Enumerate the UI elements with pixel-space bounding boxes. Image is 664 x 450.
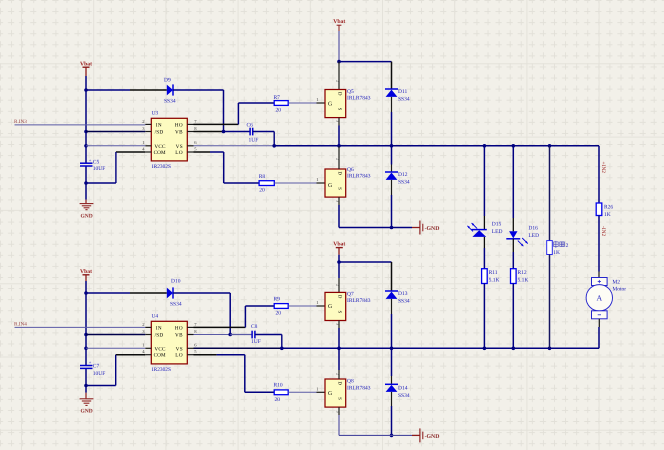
svg-text:3: 3 <box>336 200 341 202</box>
svg-text:SS34: SS34 <box>398 180 410 186</box>
svg-text:GND: GND <box>81 214 93 220</box>
svg-text:Q5: Q5 <box>347 89 354 95</box>
svg-text:20: 20 <box>275 397 281 403</box>
svg-text:SS34: SS34 <box>398 97 410 103</box>
svg-text:1K: 1K <box>553 250 560 256</box>
svg-text:Vbat: Vbat <box>333 242 345 248</box>
svg-text:IRLR7843: IRLR7843 <box>347 173 371 179</box>
svg-text:LED: LED <box>492 229 503 235</box>
svg-text:D16: D16 <box>528 226 538 232</box>
svg-text:Q8: Q8 <box>347 378 354 384</box>
svg-text:20: 20 <box>259 188 265 194</box>
svg-text:A: A <box>596 294 602 303</box>
svg-text:3: 3 <box>336 323 341 325</box>
svg-text:SS34: SS34 <box>398 393 410 399</box>
svg-text:S: S <box>337 108 343 111</box>
svg-text:1K: 1K <box>604 212 611 218</box>
svg-text:D11: D11 <box>398 89 408 95</box>
svg-text:Motor: Motor <box>612 286 626 292</box>
svg-text:2: 2 <box>336 158 341 160</box>
svg-text:COM: COM <box>154 150 166 156</box>
svg-text:LO: LO <box>175 353 183 359</box>
svg-text:IR2302S: IR2302S <box>152 164 171 170</box>
svg-text:HO: HO <box>175 325 183 331</box>
svg-text:R26: R26 <box>604 205 613 211</box>
svg-text:S: S <box>337 311 343 314</box>
svg-text:5.1K: 5.1K <box>489 278 500 284</box>
svg-text:10UF: 10UF <box>93 371 106 377</box>
svg-text:/SD: /SD <box>155 130 164 136</box>
svg-text:D12: D12 <box>398 172 408 178</box>
svg-text:D14: D14 <box>398 386 408 392</box>
svg-text:GND: GND <box>81 409 93 415</box>
svg-text:Q7: Q7 <box>347 292 354 298</box>
svg-text:10UF: 10UF <box>93 166 106 172</box>
svg-text:+: + <box>89 360 92 365</box>
svg-text:R10: R10 <box>274 383 283 389</box>
svg-text:G: G <box>328 304 332 310</box>
svg-text:3: 3 <box>336 120 341 122</box>
svg-text:/SD: /SD <box>155 333 164 339</box>
svg-text:D13: D13 <box>398 291 408 297</box>
svg-text:R11: R11 <box>489 270 498 276</box>
svg-text:S: S <box>337 187 343 190</box>
svg-text:1UF: 1UF <box>251 339 261 345</box>
svg-text:3: 3 <box>336 411 341 413</box>
svg-text:-IN2: -IN2 <box>600 226 606 236</box>
svg-text:LO: LO <box>175 150 183 156</box>
svg-text:D: D <box>337 382 343 386</box>
svg-text:Vbat: Vbat <box>80 269 92 275</box>
svg-text:VB: VB <box>175 130 183 136</box>
svg-text:-GND: -GND <box>425 226 440 232</box>
svg-text:IRLR7843: IRLR7843 <box>347 386 371 392</box>
svg-text:-GND: -GND <box>425 434 440 440</box>
svg-text:LED: LED <box>528 233 539 239</box>
svg-text:IN: IN <box>156 325 162 331</box>
svg-text:1UF: 1UF <box>249 138 259 144</box>
svg-text:D15: D15 <box>492 222 502 228</box>
svg-text:5.1K: 5.1K <box>518 278 529 284</box>
svg-text:VS: VS <box>176 144 183 150</box>
svg-text:SS34: SS34 <box>398 299 410 305</box>
svg-text:IN: IN <box>156 122 162 128</box>
svg-text:M2: M2 <box>612 279 620 285</box>
svg-text:VCC: VCC <box>154 144 166 150</box>
svg-text:C7: C7 <box>93 364 100 370</box>
svg-text:COM: COM <box>154 353 166 359</box>
svg-text:G: G <box>328 183 332 189</box>
svg-text:20: 20 <box>276 107 282 113</box>
svg-text:2: 2 <box>336 373 341 375</box>
svg-text:S: S <box>337 397 343 400</box>
svg-text:+IN2: +IN2 <box>600 162 606 174</box>
svg-text:SS34: SS34 <box>164 99 176 105</box>
svg-text:Vbat: Vbat <box>333 19 345 25</box>
svg-text:+: + <box>89 158 92 163</box>
svg-text:Q6: Q6 <box>347 167 354 173</box>
svg-text:SS34: SS34 <box>170 302 182 308</box>
svg-text:VS: VS <box>176 346 183 352</box>
svg-text:R12: R12 <box>518 270 527 276</box>
svg-text:D9: D9 <box>164 78 171 84</box>
svg-text:C8: C8 <box>251 324 258 330</box>
svg-text:IRLR7843: IRLR7843 <box>347 95 371 101</box>
svg-text:IR2302S: IR2302S <box>152 367 171 373</box>
svg-text:2: 2 <box>336 80 341 82</box>
svg-text:D10: D10 <box>171 279 181 285</box>
svg-text:R.IN3: R.IN3 <box>14 119 27 125</box>
svg-text:C5: C5 <box>93 160 100 166</box>
svg-text:R7: R7 <box>274 95 281 101</box>
svg-text:20: 20 <box>276 310 282 316</box>
svg-text:D: D <box>337 295 343 299</box>
svg-text:VB: VB <box>175 333 183 339</box>
svg-text:R8: R8 <box>259 174 266 180</box>
svg-text:IRLR7843: IRLR7843 <box>347 298 371 304</box>
svg-text:G: G <box>328 101 332 107</box>
svg-text:R9: R9 <box>274 297 281 303</box>
svg-text:VCC: VCC <box>154 346 166 352</box>
svg-text:R.IN4: R.IN4 <box>14 321 27 327</box>
svg-text:U3: U3 <box>152 111 159 117</box>
svg-text:C6: C6 <box>247 123 254 129</box>
svg-text:G: G <box>328 391 332 397</box>
svg-text:HO: HO <box>175 122 183 128</box>
svg-text:D: D <box>337 172 343 176</box>
svg-text:2: 2 <box>566 243 569 249</box>
svg-text:U4: U4 <box>152 314 159 320</box>
svg-text:D: D <box>337 92 343 96</box>
svg-text:2: 2 <box>336 284 341 286</box>
svg-text:Vbat: Vbat <box>80 61 92 67</box>
